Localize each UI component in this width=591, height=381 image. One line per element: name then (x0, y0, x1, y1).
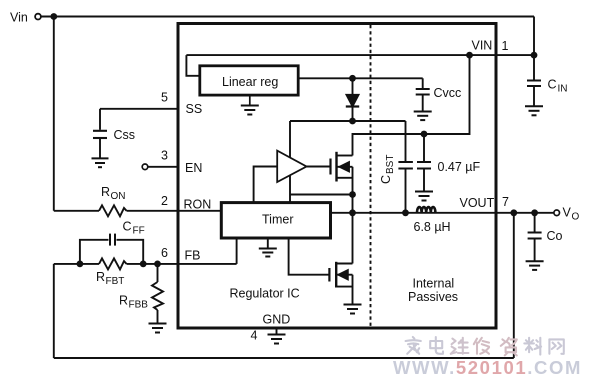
svg-text:R: R (119, 294, 128, 308)
svg-text:FBT: FBT (106, 276, 125, 287)
svg-text:4: 4 (251, 329, 258, 343)
svg-text:0.47 µF: 0.47 µF (438, 160, 481, 174)
svg-text:ON: ON (111, 191, 126, 202)
svg-text:FB: FB (185, 249, 201, 263)
svg-text:3: 3 (161, 149, 168, 163)
svg-text:IN: IN (558, 84, 568, 95)
svg-text:6: 6 (161, 246, 168, 260)
svg-text:1: 1 (502, 39, 509, 53)
svg-text:5: 5 (161, 91, 168, 105)
svg-text:O: O (572, 212, 580, 223)
svg-text:Css: Css (114, 128, 136, 142)
svg-text:BST: BST (385, 155, 396, 174)
svg-text:Internal: Internal (413, 277, 455, 291)
svg-text:6.8 µH: 6.8 µH (414, 220, 451, 234)
svg-text:SS: SS (186, 102, 203, 116)
svg-text:C: C (379, 175, 393, 184)
svg-text:Cvcc: Cvcc (434, 86, 462, 100)
svg-text:WWW.520101.COM: WWW.520101.COM (393, 357, 582, 378)
svg-text:7: 7 (502, 195, 509, 209)
svg-text:Regulator IC: Regulator IC (230, 287, 300, 301)
svg-text:FF: FF (133, 226, 145, 237)
svg-text:FBB: FBB (129, 300, 149, 311)
svg-text:Vin: Vin (10, 11, 28, 25)
svg-text:Co: Co (547, 229, 563, 243)
svg-text:GND: GND (263, 313, 291, 327)
svg-text:VOUT: VOUT (460, 196, 495, 210)
svg-text:Linear reg: Linear reg (222, 75, 278, 89)
svg-text:R: R (101, 185, 110, 199)
svg-text:V: V (563, 206, 572, 220)
svg-text:C: C (548, 78, 557, 92)
svg-text:RON: RON (184, 198, 212, 212)
svg-text:VIN: VIN (472, 39, 493, 53)
svg-text:Passives: Passives (408, 290, 458, 304)
svg-text:EN: EN (185, 161, 202, 175)
svg-text:Timer: Timer (262, 213, 293, 227)
svg-text:C: C (123, 220, 132, 234)
svg-text:R: R (96, 270, 105, 284)
svg-text:2: 2 (161, 194, 168, 208)
